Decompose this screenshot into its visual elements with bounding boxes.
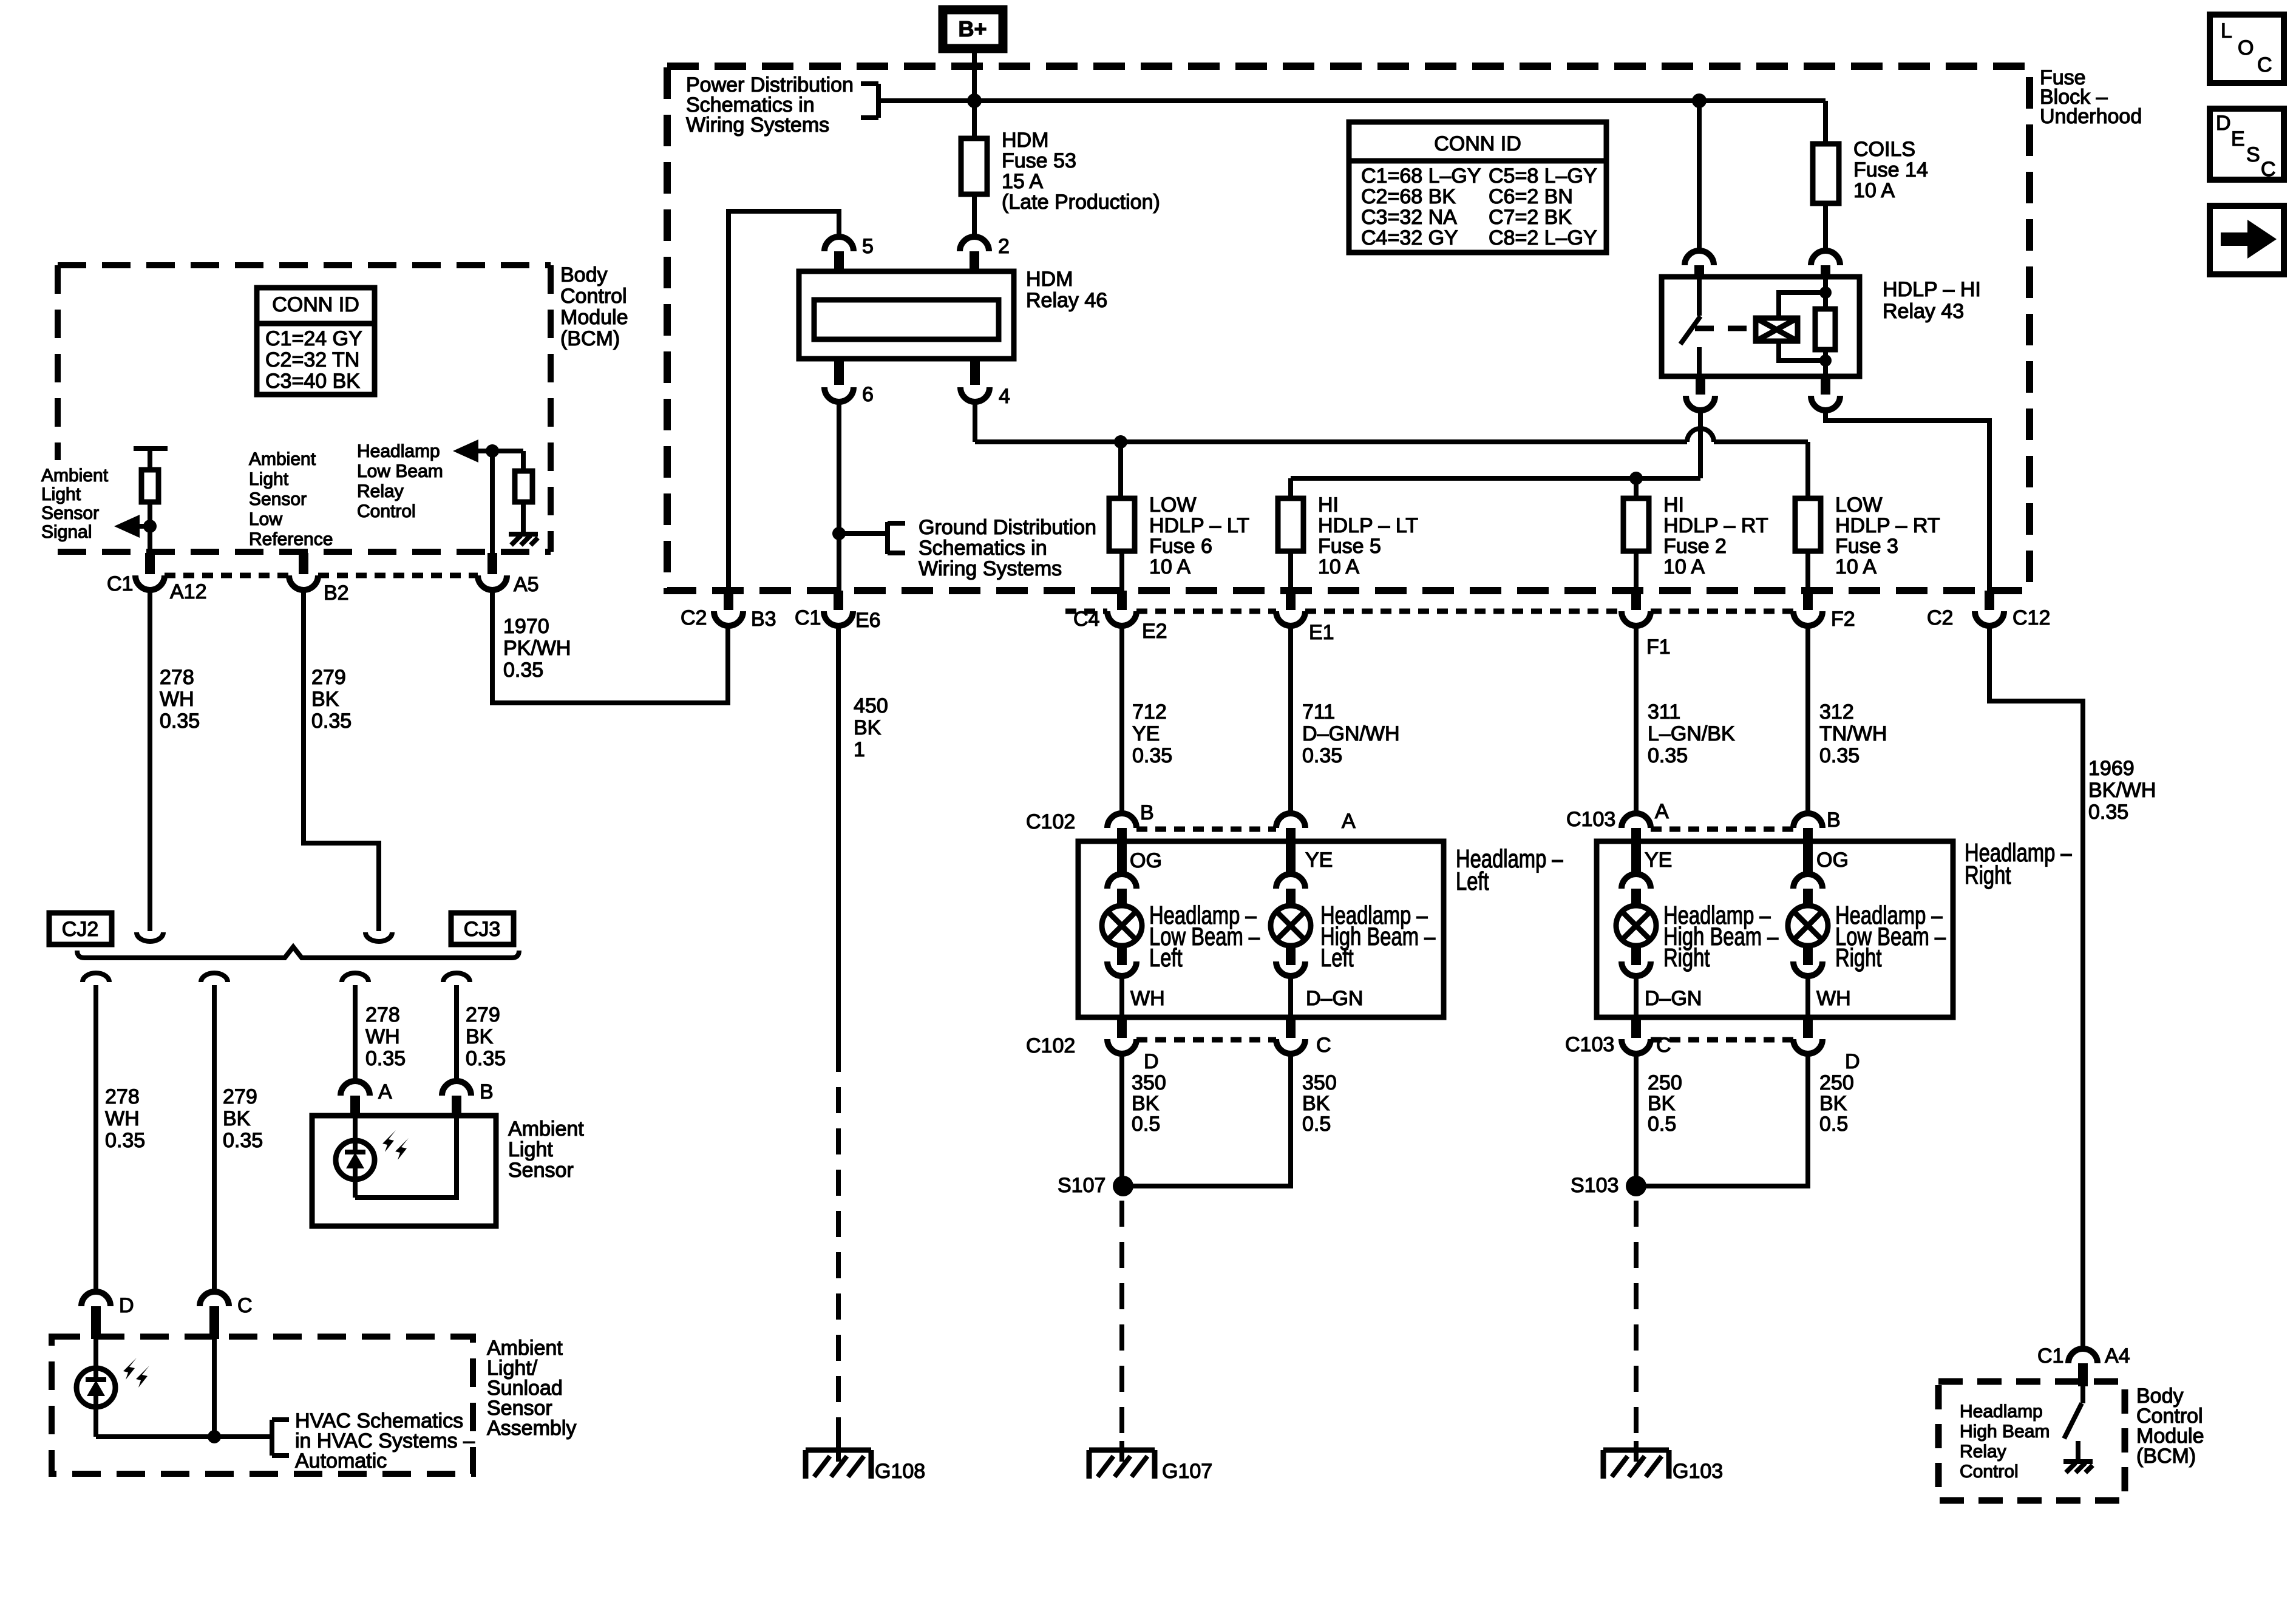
wire 250 BK headlamp right D to S103 [1637,1054,1808,1186]
relay HDM 46 [799,271,1014,359]
connector C1/A12 at BCM [107,553,207,603]
svg-text:C102: C102 [1026,810,1075,833]
ambient light sensor photodiode [336,1118,409,1198]
svg-text:LOW: LOW [1835,493,1882,517]
connector C1/A4 at BCM (bottom right) [2037,1344,2130,1386]
svg-text:Headlamp: Headlamp [1960,1402,2043,1422]
svg-text:Control: Control [1960,1462,2019,1482]
wire B3 up and over to relay 46 pin 5 [729,211,839,591]
connector C2/B3 at fuse block [681,591,776,631]
ground G103 [1603,1441,1723,1483]
svg-text:278: 278 [105,1085,140,1108]
svg-text:WH: WH [160,688,194,711]
wire 711 D-GN/WH fuse 5 to headlamp left [1288,626,1293,815]
page-reference arrow box [2210,206,2284,274]
ambient light sensor box [312,1116,496,1226]
svg-text:311: 311 [1648,700,1680,724]
wire junction down to fuse 6 [1118,442,1123,498]
HVAC reference bracket [272,1420,289,1456]
svg-text:Automatic: Automatic [295,1449,387,1473]
svg-text:4: 4 [999,385,1010,408]
svg-text:C: C [1316,1034,1331,1057]
connector A at ambient light sensor [341,1080,392,1118]
svg-text:Wiring Systems: Wiring Systems [686,114,829,137]
connector hook relay 46 pin 4 [960,358,990,402]
fuse LOW HDLP-RT fuse 3 [1795,498,1821,591]
svg-text:C4=32 GY: C4=32 GY [1361,226,1458,249]
wire 350 BK headlamp left C to S107 [1123,1054,1291,1186]
label 350 BK 0.5 (left) [1132,1071,1166,1136]
svg-text:B3: B3 [751,608,776,631]
svg-text:BK: BK [1132,1092,1160,1115]
svg-text:OG: OG [1130,849,1162,872]
label 1970 PK/WH 0.35 [503,615,571,682]
svg-text:D: D [119,1294,134,1317]
svg-text:YE: YE [1645,849,1672,872]
svg-text:Relay 43: Relay 43 [1883,300,1964,323]
svg-text:C6=2 BN: C6=2 BN [1489,185,1573,208]
svg-text:WH: WH [105,1107,140,1130]
ambient light sensor signal arrow [114,515,150,538]
svg-text:A12: A12 [170,580,207,603]
svg-text:C1: C1 [2037,1344,2063,1368]
wire 279 BK B2 down to splice pack [304,590,379,931]
connector C102 pin D (bottom) [1026,1017,1159,1073]
connector C103 pin D (bottom) [1793,1017,1860,1073]
connector hook at relay 43 left bottom pin [1686,375,1715,410]
label Ambient Light Sensor Signal [41,466,109,542]
svg-text:HI: HI [1663,493,1684,517]
wire 250 BK headlamp right C to S103 [1634,1054,1639,1186]
svg-text:Headlamp: Headlamp [357,441,440,461]
wire relay 46 pin 4 low-beam feed H1 [975,402,1808,498]
svg-text:10 A: 10 A [1663,555,1705,578]
svg-text:0.5: 0.5 [1819,1113,1848,1136]
svg-text:OG: OG [1816,849,1849,872]
svg-text:E2: E2 [1142,620,1167,643]
svg-text:C5=8 L–GY: C5=8 L–GY [1489,164,1597,188]
connector C103 pin A (headlamp right) [1566,800,1669,875]
svg-text:C1=68 L–GY: C1=68 L–GY [1361,164,1481,188]
svg-text:Sensor: Sensor [249,489,307,509]
svg-text:Fuse 6: Fuse 6 [1149,535,1212,558]
connector C at sunload sensor [200,1292,253,1339]
svg-text:Light: Light [249,469,289,489]
svg-text:LOW: LOW [1149,493,1196,517]
svg-text:A: A [1655,800,1669,823]
connector F1 at fuse block [1622,591,1671,659]
body control module dashed box (bottom right) [1938,1381,2125,1500]
label COILS Fuse 14 10 A [1853,138,1928,202]
svg-text:B: B [480,1080,494,1103]
svg-text:Underhood: Underhood [2040,105,2142,128]
svg-text:278: 278 [160,666,194,689]
svg-text:Relay: Relay [1960,1442,2006,1462]
label 450 BK 1 [854,694,888,761]
svg-text:279: 279 [311,666,346,689]
COILS fuse 14 [1813,101,1839,251]
dashed wire S103 to G103 [1634,1201,1639,1445]
wire relay 43 right pin to C12 [1826,410,1989,591]
connector row dotted line [1065,609,1793,614]
svg-text:1970: 1970 [503,615,549,638]
headlamp low beam right lamp [1788,849,1851,1019]
C102 bottom dotted line [1136,1037,1276,1043]
svg-text:E6: E6 [855,609,881,632]
connector hook relay 46 pin 6 [824,358,854,402]
label 278 WH 0.35 (A) [365,1003,406,1070]
wire 278 WH splice pack to D [93,985,98,1293]
wire end hook B2 [365,932,392,941]
svg-text:Relay 46: Relay 46 [1026,289,1107,312]
connector hook relay 46 pin 2 [960,237,989,273]
label Body Control Module (BCM) bottom right [2136,1385,2204,1468]
svg-text:312: 312 [1819,700,1854,724]
svg-text:1: 1 [854,738,865,761]
svg-text:D: D [1144,1050,1159,1073]
svg-text:CONN ID: CONN ID [272,293,359,316]
svg-text:0.35: 0.35 [1819,744,1860,767]
svg-text:HDLP – HI: HDLP – HI [1883,278,1981,301]
svg-text:Light: Light [41,484,81,504]
label HDLP - HI Relay 43 [1883,278,1981,323]
splice pack brace CJ2/CJ3 [77,947,519,958]
junction node signal [143,520,157,533]
C102 top dotted line [1136,827,1276,832]
splice S103 [1571,1174,1646,1197]
svg-text:C2=32 TN: C2=32 TN [265,348,359,371]
C103 bottom dotted line [1651,1037,1793,1043]
svg-text:0.35: 0.35 [2088,801,2128,824]
svg-text:Ambient: Ambient [508,1117,584,1141]
ground distribution reference bracket [839,522,905,554]
svg-text:C8=2 L–GY: C8=2 L–GY [1489,226,1597,249]
svg-text:Sensor: Sensor [508,1159,574,1182]
svg-text:C2: C2 [1927,606,1953,629]
svg-text:E: E [2231,127,2245,151]
svg-text:WH: WH [1130,987,1165,1010]
svg-text:C: C [2261,158,2276,181]
ground G108 [806,1441,925,1483]
svg-text:BK/WH: BK/WH [2088,779,2156,802]
splice S107 [1058,1174,1133,1197]
svg-text:712: 712 [1132,700,1167,724]
power distribution reference bracket [861,84,878,118]
svg-text:Fuse 53: Fuse 53 [1002,149,1076,172]
svg-text:10 A: 10 A [1318,555,1359,578]
svg-text:PK/WH: PK/WH [503,637,571,660]
label 311 L-GN/BK 0.35 [1648,700,1735,767]
ground G107 [1089,1441,1212,1483]
label LOW HDLP-RT Fuse 3 10 A [1835,493,1940,578]
svg-text:F1: F1 [1646,636,1671,659]
wire rail down to relay 43 left pin [1697,101,1702,251]
fuse HI HDLP-LT fuse 5 [1278,498,1303,591]
svg-text:Relay: Relay [357,481,404,501]
svg-text:C2=68 BK: C2=68 BK [1361,185,1456,208]
svg-text:Right: Right [1835,943,1882,972]
svg-text:C1: C1 [107,572,133,595]
CJ2 takeout box [49,913,112,944]
svg-text:10 A: 10 A [1835,555,1877,578]
svg-text:D–GN/WH: D–GN/WH [1302,722,1400,745]
svg-text:Left: Left [1456,867,1489,895]
ambient light sensor internal wire to B [355,1118,457,1198]
LOC box [2210,15,2284,83]
headlamp left box [1078,841,1444,1017]
wire S107 to G108... dashed to G107 [1119,1201,1124,1445]
svg-text:Right: Right [1965,861,2011,889]
HDM fuse 53 [961,101,987,237]
connector C102 pin C (bottom) [1276,1017,1331,1057]
svg-text:HDLP – LT: HDLP – LT [1149,514,1249,537]
svg-text:D: D [1845,1050,1860,1073]
svg-text:BK: BK [1819,1092,1847,1115]
svg-text:HI: HI [1318,493,1339,517]
label 278 WH 0.35 (D) [105,1085,145,1152]
label HI HDLP-LT Fuse 5 10 A [1318,493,1418,578]
headlamp right box [1597,841,1953,1017]
svg-text:Left: Left [1320,943,1354,972]
svg-text:A: A [1342,810,1356,833]
junction node rail to relay 43 coil feed [1692,93,1707,108]
wire end hook C branch [201,973,228,982]
svg-text:0.35: 0.35 [365,1047,406,1070]
label Headlamp Low Beam Relay Control [357,441,443,521]
svg-text:B: B [1827,808,1841,832]
connector D at sunload sensor [81,1292,134,1339]
DESC box [2210,109,2284,181]
svg-text:0.5: 0.5 [1648,1113,1676,1136]
svg-text:0.35: 0.35 [1302,744,1342,767]
fuse HI HDLP-RT fuse 2 [1623,498,1649,591]
label Headlamp - Right [1965,838,2072,889]
svg-text:350: 350 [1132,1071,1166,1094]
wire 350 BK headlamp left D to S107 [1119,1054,1124,1186]
svg-text:C1: C1 [795,606,821,629]
connector C103 pin C (bottom) [1565,1017,1671,1057]
connector C2/C12 at fuse block [1927,591,2050,629]
svg-text:HDLP – RT: HDLP – RT [1663,514,1768,537]
svg-text:O: O [2238,36,2254,59]
fuse block underhood dashed box [667,66,2029,591]
wire end hook A12 [137,932,163,941]
connector C102 pin B (headlamp left) [1026,801,1154,875]
power rail wire [878,98,1826,103]
svg-text:S: S [2246,143,2260,166]
svg-text:250: 250 [1819,1071,1854,1094]
svg-text:BK: BK [466,1025,494,1048]
svg-text:BK: BK [1302,1092,1330,1115]
label LOW HDLP-LT Fuse 6 10 A [1149,493,1249,578]
ambient light sensor signal pull-up resistor [134,449,168,553]
svg-text:L–GN/BK: L–GN/BK [1648,722,1735,745]
fuse LOW HDLP-LT fuse 6 [1109,498,1135,591]
BCM internal pull resistor to ground [515,451,532,534]
svg-text:2: 2 [998,235,1010,258]
svg-text:A: A [378,1080,392,1103]
svg-text:HDM: HDM [1026,268,1073,291]
wire B+ down to power rail [972,53,977,101]
svg-text:Right: Right [1663,943,1710,972]
svg-text:279: 279 [223,1085,257,1108]
wire 311 L-GN/BK fuse 2 to headlamp right [1634,626,1639,815]
label HVAC Schematics in HVAC Systems - Automatic [295,1409,475,1473]
label Headlamp - High Beam - Left [1320,901,1435,972]
connector hook at relay 43 right bottom pin [1811,375,1840,410]
label Headlamp - High Beam - Right [1663,901,1778,972]
svg-text:D–GN: D–GN [1306,987,1363,1010]
svg-text:Body: Body [560,263,608,286]
svg-text:YE: YE [1305,849,1333,872]
svg-text:Light: Light [508,1138,553,1161]
svg-text:BK: BK [223,1107,251,1130]
svg-text:711: 711 [1302,700,1335,724]
svg-text:C3=32 NA: C3=32 NA [1361,206,1457,229]
wire end hook B branch [443,973,470,982]
wire 279 BK splice pack to C [212,985,217,1293]
svg-text:BK: BK [311,688,339,711]
svg-text:C103: C103 [1566,808,1615,831]
svg-text:(BCM): (BCM) [560,327,620,350]
svg-text:350: 350 [1302,1071,1337,1094]
connector C4/E2 at fuse block [1073,591,1167,643]
label Ambient Light/Sunload Sensor Assembly [487,1337,576,1440]
CJ3 takeout box [451,913,514,944]
connector B at ambient light sensor [442,1080,494,1118]
svg-text:Fuse 2: Fuse 2 [1663,535,1727,558]
connector hook relay 46 pin 5 [824,237,854,273]
svg-text:Ambient: Ambient [41,466,109,486]
svg-text:15 A: 15 A [1002,170,1043,193]
svg-text:YE: YE [1132,722,1160,745]
sunload sensor internal wires [96,1339,272,1437]
svg-text:HDLP – RT: HDLP – RT [1835,514,1940,537]
svg-text:0.5: 0.5 [1132,1113,1160,1136]
svg-text:Schematics in: Schematics in [919,537,1047,560]
BCM internal ground [509,534,538,545]
svg-text:BK: BK [1648,1092,1676,1115]
svg-text:10 A: 10 A [1853,179,1895,202]
wire relay 43 left pin down to high-beam feed [1698,410,1703,478]
label HDM Relay 46 [1026,268,1107,312]
connector A5 at BCM [478,553,539,596]
wire end hook D branch [83,973,109,982]
svg-text:C12: C12 [2012,606,2050,629]
svg-text:0.35: 0.35 [466,1047,506,1070]
connector hook at relay 43 right top pin [1811,251,1840,279]
svg-text:0.35: 0.35 [105,1129,145,1152]
svg-text:S103: S103 [1571,1174,1618,1197]
svg-text:5: 5 [862,235,874,258]
svg-text:A4: A4 [2105,1344,2130,1368]
wire end hook A branch [342,973,369,982]
wire 450 BK from E6 to G108 [836,626,841,1445]
label 279 BK 0.35 (B) [466,1003,506,1070]
wire 1970 PK/WH A5 to B3 [492,590,728,703]
svg-text:WH: WH [1816,987,1851,1010]
connector C102 pin A (headlamp left) [1276,810,1356,875]
svg-text:C3=40 BK: C3=40 BK [265,370,360,393]
svg-text:Control: Control [560,285,627,308]
svg-text:0.35: 0.35 [503,659,543,682]
svg-text:TN/WH: TN/WH [1819,722,1887,745]
label Power Distribution Schematics in Wiring Systems [686,73,854,137]
connector B2 at BCM [289,553,349,605]
svg-text:C7=2 BK: C7=2 BK [1489,206,1572,229]
label Headlamp - Low Beam - Left [1149,901,1260,972]
svg-text:278: 278 [365,1003,400,1026]
label Ground Distribution Schematics in Wiring Systems [919,516,1096,580]
svg-text:C103: C103 [1565,1033,1614,1056]
svg-text:D: D [2216,112,2231,135]
label 250 BK 0.5 (left) [1648,1071,1682,1136]
svg-text:E1: E1 [1309,621,1334,644]
label 278 WH 0.35 (A12) [160,666,200,733]
svg-text:0.35: 0.35 [1648,744,1688,767]
svg-text:C: C [237,1294,253,1317]
battery feed B+ terminal [943,10,1003,49]
svg-text:Module: Module [560,306,628,329]
wire 712 YE fuse 6 to headlamp left [1119,626,1124,815]
headlamp high beam left lamp [1271,849,1363,1019]
svg-text:(Late Production): (Late Production) [1002,191,1160,214]
svg-text:Assembly: Assembly [487,1417,576,1440]
svg-text:279: 279 [466,1003,500,1026]
svg-text:BK: BK [854,716,881,739]
svg-text:Fuse 14: Fuse 14 [1853,158,1928,181]
headlamp low beam left lamp [1102,849,1165,1019]
svg-text:B2: B2 [324,581,349,605]
wire 278 WH A12 down to splice pack [148,590,152,931]
headlamp low beam relay control arrow [453,439,523,463]
svg-text:D–GN: D–GN [1645,987,1702,1010]
svg-text:0.35: 0.35 [1132,744,1172,767]
label Ambient Light Sensor [508,1117,584,1182]
svg-text:0.35: 0.35 [223,1129,263,1152]
svg-text:Fuse 5: Fuse 5 [1318,535,1381,558]
svg-text:Left: Left [1149,943,1183,972]
label 279 BK 0.35 (B2) [311,666,352,733]
svg-text:Fuse 3: Fuse 3 [1835,535,1898,558]
wire junction down to fuse 2 [1634,478,1639,498]
label 1969 BK/WH 0.35 [2088,757,2156,824]
svg-text:A5: A5 [514,573,539,596]
svg-text:Ambient: Ambient [249,449,316,469]
label Fuse Block - Underhood [2040,66,2142,128]
svg-text:C102: C102 [1026,1034,1075,1057]
svg-text:L: L [2221,19,2232,42]
svg-text:G107: G107 [1162,1460,1212,1483]
label 350 BK 0.5 (right) [1302,1071,1337,1136]
connector C1/E6 at fuse block [795,591,881,632]
wire 312 TN/WH fuse 3 to headlamp right [1805,626,1810,815]
label 279 BK 0.35 (C) [223,1085,263,1152]
body control module dashed box (left) [58,265,551,552]
label Ambient Light Sensor Low Reference [249,449,333,549]
svg-text:WH: WH [365,1025,400,1048]
connector E1 at fuse block [1276,591,1334,644]
label HI HDLP-RT Fuse 2 10 A [1663,493,1768,578]
svg-text:Control: Control [357,501,416,521]
svg-text:HDLP – LT: HDLP – LT [1318,514,1418,537]
svg-text:B: B [1140,801,1154,824]
svg-text:6: 6 [862,383,874,406]
wire relay 46 pin 6 down to E6 [837,402,841,591]
svg-text:High Beam: High Beam [1960,1422,2050,1442]
svg-text:Low Beam: Low Beam [357,461,443,481]
svg-text:Reference: Reference [249,529,333,549]
